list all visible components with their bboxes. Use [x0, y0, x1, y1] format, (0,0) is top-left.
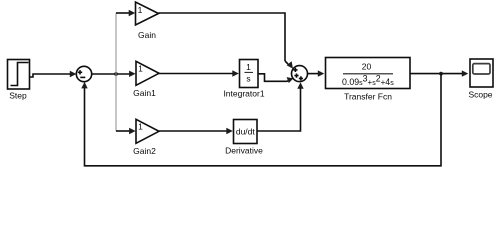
scope block Scope — [470, 59, 493, 87]
svg-text:Gain: Gain — [138, 30, 156, 40]
arrowhead into Sum — [70, 71, 77, 77]
plus sign middle in Sum1 — [294, 74, 298, 78]
plus sign bottom in Sum1 — [299, 76, 303, 80]
svg-text:20: 20 — [362, 62, 372, 72]
arrowhead into Gain1 — [129, 71, 136, 77]
plus sign top in Sum1 — [293, 68, 297, 72]
wire Gain to Sum1 top — [159, 13, 286, 61]
branch junction node — [114, 72, 118, 76]
branch vertical wire — [115, 13, 117, 131]
gain block Gain1 — [136, 61, 159, 85]
svg-text:1: 1 — [138, 64, 143, 74]
wire Integrator1 to Sum1 — [259, 74, 290, 82]
transfer function block Transfer Fcn — [326, 58, 411, 89]
integrator fraction bar — [245, 71, 254, 73]
arrowhead into Sum1 west — [287, 77, 294, 83]
svg-text:Integrator1: Integrator1 — [223, 89, 264, 99]
wire Transfer Fcn to Scope — [410, 73, 463, 75]
arrowhead into Sum1 northwest — [287, 61, 293, 69]
minus sign in Sum — [80, 76, 85, 78]
feedback wire Scope junction to Sum — [85, 74, 442, 166]
derivative block Derivative — [234, 120, 258, 144]
wire branch to Gain2 — [116, 130, 130, 132]
integrator block Integrator1 — [240, 60, 259, 88]
scope screen — [473, 64, 490, 74]
arrowhead into Gain2 — [129, 128, 136, 134]
wire Gain2 to Derivative — [159, 130, 227, 132]
svg-text:Transfer Fcn: Transfer Fcn — [344, 92, 392, 102]
gain block Gain — [136, 2, 159, 25]
svg-text:Gain1: Gain1 — [133, 88, 156, 98]
junction node before Scope — [439, 72, 443, 76]
svg-text:1: 1 — [138, 122, 143, 132]
svg-text:s: s — [246, 74, 250, 84]
arrowhead into Integrator1 — [232, 70, 239, 76]
svg-text:Step: Step — [9, 91, 27, 101]
step icon — [11, 63, 29, 86]
arrowhead into Sum1 south — [297, 82, 303, 89]
wire Gain1 to Integrator1 — [159, 73, 233, 75]
svg-text:1: 1 — [138, 5, 143, 15]
arrowhead into Gain — [129, 10, 136, 16]
arrowhead into Scope — [462, 70, 469, 76]
fraction bar — [343, 73, 393, 75]
sum junction Sum — [76, 66, 91, 81]
diagonal into Sum1 — [285, 61, 288, 64]
gain block Gain2 — [136, 119, 159, 143]
svg-text:du/dt: du/dt — [236, 126, 256, 136]
wire Sum to branch and Gain1 — [92, 73, 130, 75]
wire Step to Sum — [30, 74, 72, 77]
svg-text:Scope: Scope — [468, 89, 492, 99]
svg-text:Gain2: Gain2 — [133, 146, 156, 156]
arrowhead into Derivative — [226, 128, 233, 134]
svg-text:1: 1 — [246, 62, 251, 72]
plus sign in Sum — [78, 70, 82, 74]
svg-text:Derivative: Derivative — [225, 146, 263, 156]
arrowhead into Transfer Fcn — [318, 70, 325, 76]
wire Sum1 to Transfer Fcn — [308, 73, 319, 75]
Step block — [8, 60, 30, 90]
sum junction Sum1 — [292, 66, 308, 82]
arrowhead into Sum south — [81, 82, 87, 89]
wire Derivative to Sum1 bottom — [258, 88, 301, 131]
wire branch to Gain — [116, 12, 129, 14]
